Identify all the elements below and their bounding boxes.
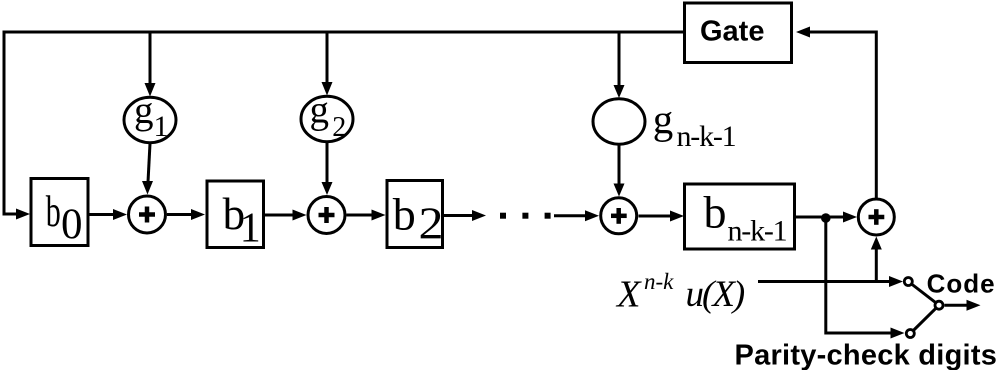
wire: tap from top bus down to g1 (149, 34, 152, 85)
wire: A1 to b1 (167, 213, 192, 216)
wire: tap from top bus down to g2 (326, 34, 329, 84)
svg-text:b: b (46, 187, 61, 236)
svg-text:2: 2 (332, 112, 346, 143)
wire: ellipsis to adder A3 (554, 214, 586, 217)
wire: b0 to adder A1 (90, 213, 115, 216)
Gate box (685, 3, 792, 63)
adder A4 (858, 199, 894, 235)
wire: g1 down to adder A1 (148, 144, 150, 183)
register b1 (207, 181, 264, 252)
wire: tap from top bus down to g(n-k-1) (618, 34, 621, 86)
svg-text:g: g (653, 96, 674, 142)
wire: switch output (Code) (945, 304, 968, 307)
wire: A4 up and left into Gate (810, 32, 876, 199)
svg-text:0: 0 (61, 201, 83, 248)
svg-text:n-k-1: n-k-1 (677, 120, 736, 153)
svg-text:g: g (134, 89, 154, 132)
switch blade: pivot to bottom contact (910, 305, 939, 333)
svg-text:b: b (704, 187, 727, 238)
svg-text:Code: Code (927, 268, 996, 298)
ellipsis dots (500, 213, 551, 219)
wire: message input to switch top contact (758, 280, 890, 283)
wire: branch up into A4 bottom (875, 249, 878, 280)
multiplier g2 (301, 89, 353, 144)
svg-text:n-k: n-k (644, 269, 674, 294)
wire: g(n-k-1) down to adder A3 (618, 145, 621, 184)
svg-text:X: X (615, 274, 642, 316)
adder A2 (308, 197, 345, 234)
svg-text:b: b (393, 189, 416, 240)
svg-text:2: 2 (419, 199, 444, 249)
svg-text:1: 1 (240, 206, 261, 252)
adder A1 (129, 196, 166, 233)
svg-text:1: 1 (154, 110, 169, 143)
wire: b2 to ellipsis (444, 214, 473, 217)
node: junction dot (821, 213, 831, 223)
wire: b(n-k-1) to adder A4 with junction (796, 216, 844, 219)
register b2 (387, 181, 444, 249)
switch blade: pivot to top contact (908, 282, 939, 306)
svg-text:Parity-check digits: Parity-check digits (735, 340, 998, 370)
wire: A3 to b(n-k-1) (639, 215, 672, 218)
wire: A2 to b2 (347, 214, 373, 217)
switch contact: bottom (906, 330, 914, 338)
register b0 (31, 179, 88, 249)
switch contact: top (904, 278, 912, 286)
svg-text:u(X): u(X) (686, 274, 745, 315)
switch pivot (935, 301, 943, 309)
svg-text:g: g (310, 89, 330, 132)
multiplier g(n-k-1) circle (593, 99, 645, 144)
wire: b1 to adder A2 (265, 214, 293, 217)
multiplier g1 (124, 89, 176, 143)
wire: parity path from junction down and right to switch bottom contact (826, 218, 891, 333)
wire: g2 down to adder A2 (326, 143, 329, 183)
svg-text:Gate: Gate (700, 16, 764, 48)
svg-text:n-k-1: n-k-1 (728, 215, 787, 248)
wire: arrowhead into b0 (16, 209, 30, 220)
adder A3 (601, 198, 637, 234)
register b(n-k-1) (685, 184, 795, 249)
wire: feedback bus from Gate output along top, down left side, into b0 (4, 32, 684, 214)
